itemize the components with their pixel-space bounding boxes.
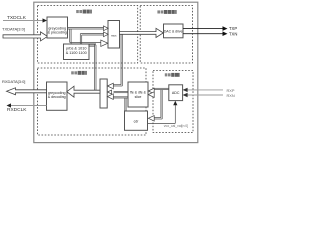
svg-text:& 1100 1100: & 1100 1100	[66, 51, 87, 55]
svg-text:slice: slice	[135, 95, 142, 99]
svg-text:TXN: TXN	[229, 31, 237, 36]
svg-text:RXDATA[3:0]: RXDATA[3:0]	[2, 79, 25, 84]
svg-text:TXDATA[3:0]: TXDATA[3:0]	[2, 27, 25, 32]
svg-text:& precoding: & precoding	[48, 31, 67, 35]
svg-text:RXN: RXN	[227, 93, 235, 98]
svg-text:TXP: TXP	[229, 26, 237, 31]
svg-text:mux: mux	[111, 33, 117, 37]
svg-text:DAC & drive: DAC & drive	[164, 29, 183, 33]
svg-text:RXDCLK: RXDCLK	[7, 107, 27, 113]
svg-text:ADC: ADC	[172, 91, 180, 95]
svg-text:vco_cal_val[n:0]: vco_cal_val[n:0]	[164, 124, 188, 128]
svg-text:TXDCLK: TXDCLK	[7, 15, 27, 21]
svg-text:& decoding: & decoding	[48, 95, 66, 99]
